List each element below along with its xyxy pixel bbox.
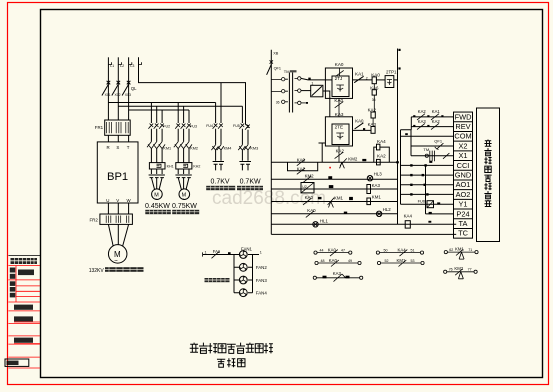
svg-text:V: V [116,198,119,203]
motor M2 0.45KW [152,189,163,200]
fuse FU5 [239,124,249,130]
svg-text:36: 36 [276,101,280,105]
GND row [401,174,454,176]
svg-text:47: 47 [341,248,345,252]
annotation [237,186,263,190]
node 0 stub [301,102,306,104]
svg-text:L3: L3 [130,64,134,68]
coil KA4 [377,144,380,150]
contactor KM2 [174,142,192,149]
KA0 contact between groups [335,98,344,116]
svg-text:KA3: KA3 [418,119,427,124]
svg-text:0.75KW: 0.75KW [172,203,197,210]
svg-text:KA4: KA4 [377,139,386,144]
svg-text:KA1: KA1 [355,72,364,77]
annotation [145,210,171,214]
rail row R5 [271,213,397,215]
coil KA4b [405,221,410,228]
title line 1 [190,343,199,353]
X1 row [411,155,454,157]
svg-text:132KV: 132KV [89,268,105,274]
svg-text:77: 77 [468,268,472,272]
label 132KW chinese [105,267,144,272]
bottom return wire [271,233,456,235]
svg-text:P24: P24 [456,209,469,218]
svg-text:0.7KV: 0.7KV [211,178,230,185]
REV row [411,126,453,128]
svg-text:1: 1 [260,251,262,255]
fan bus left [233,255,235,293]
svg-text:KA1: KA1 [432,109,441,114]
rail row R1 [271,161,397,163]
reactor FR1 [105,120,131,135]
cell texts [10,268,34,343]
fan FAN1 [239,251,247,259]
unit U2 [301,183,314,193]
svg-text:KM1: KM1 [397,258,406,263]
coil KA3 [371,127,375,134]
coil KA2 [371,112,375,118]
wire L1 [107,57,109,120]
svg-text:KM2: KM2 [454,266,463,271]
contact KA3 changeover [313,276,316,279]
svg-text:KA0: KA0 [371,73,380,78]
KA0 contact [335,68,343,77]
contact KM1 actuator [328,198,335,208]
svg-text:KM3: KM3 [250,147,258,151]
svg-text:76: 76 [449,268,453,272]
wires FR2 to motor M1 [108,224,128,246]
svg-text:KH1: KH1 [167,165,174,169]
contact KM2 76-77 thermal [444,270,447,273]
svg-text:Y1: Y1 [458,200,467,209]
inverter terminal box [477,108,500,242]
rail row R4 [271,201,397,203]
cable marks [175,175,191,178]
svg-text:COM: COM [454,132,471,141]
svg-text:TM: TM [423,147,429,152]
svg-text:R: R [107,145,110,150]
svg-text:KM1: KM1 [163,147,171,151]
svg-text:FAN4: FAN4 [256,291,268,296]
breaker QF1 [267,65,272,75]
annotation [172,210,199,214]
wire L3 [128,57,130,120]
svg-text:TA: TA [459,219,468,228]
svg-text:0.7KW: 0.7KW [240,178,261,185]
svg-text:BP1: BP1 [107,171,128,183]
svg-text:HL2: HL2 [383,207,392,212]
svg-text:1: 1 [311,82,313,86]
breaker QL pole 1 [102,81,110,96]
TM primary taps [271,80,281,92]
coil KM1 [367,198,371,205]
timer 2TJ [332,76,349,97]
svg-text:36: 36 [372,98,376,102]
wire group2 to rail R1 [319,143,326,162]
vertical chinese label [484,140,491,147]
svg-text:2TE: 2TE [335,125,343,130]
svg-text:FU3: FU3 [190,124,197,128]
svg-text:KA0: KA0 [305,195,314,200]
svg-text:AO2: AO2 [456,190,471,199]
contact KM2 with actuator [340,158,347,168]
svg-text:2TJ: 2TJ [335,76,343,81]
svg-text:L2: L2 [120,64,124,68]
svg-text:KM4: KM4 [224,147,232,151]
lamp HL3 [367,176,372,181]
thermal box FR4 [176,163,192,169]
breaker QL pole 2 [112,81,120,96]
artifact dot [329,167,331,169]
svg-text:71: 71 [468,248,472,252]
svg-text:KM1: KM1 [372,194,382,199]
coil KA0 [372,77,376,84]
branch 3 drops [216,83,221,123]
bus phase C [129,109,189,111]
svg-text:2TP1: 2TP1 [386,70,397,75]
Y1 row with FU6 [401,203,454,205]
fuse FU4 [213,124,223,129]
svg-text:KA4: KA4 [404,214,413,219]
svg-text:HL3: HL3 [374,172,383,177]
svg-text:~: ~ [114,259,118,265]
svg-text:KA0: KA0 [307,208,316,213]
TM secondary taps [298,77,301,80]
svg-text:L1: L1 [110,64,114,68]
terminal hook N [139,62,142,64]
svg-text:KA0: KA0 [328,248,337,253]
coil KA2b [377,159,381,165]
bus phase B [118,105,242,107]
contact KM1 row2 [377,261,380,264]
svg-text:XB: XB [273,52,279,56]
svg-text:KA0: KA0 [334,98,343,103]
rail row R6 [271,223,456,225]
CCI row [401,164,454,166]
svg-text:S: S [116,145,119,150]
contact KA0 out of 2TE [353,123,372,131]
svg-text:KH2: KH2 [193,165,200,169]
X2 row [411,145,454,147]
svg-text:FU6: FU6 [418,199,426,204]
svg-text:CCI: CCI [457,161,470,170]
inverter BP1 [97,142,138,203]
feed verticals [401,117,412,204]
svg-text:KA3: KA3 [372,183,381,188]
svg-text:X01: X01 [105,93,111,97]
svg-text:44: 44 [320,248,324,252]
svg-text:KM2: KM2 [348,157,358,162]
fan FAN3 [239,276,247,284]
svg-text:FR2: FR2 [90,217,99,222]
contact KA4 50-51 [376,251,379,254]
fan bus right [252,255,254,293]
svg-text:X1: X1 [458,151,467,160]
parallel loop KA0/KA2 [288,162,318,170]
svg-text:48: 48 [321,259,325,263]
svg-text:T: T [127,145,130,150]
fan annotation [205,278,230,282]
wire FU1 to 2TE [323,91,330,117]
svg-text:1: 1 [205,250,207,254]
svg-text:FAN2: FAN2 [256,265,268,270]
timer 2TP1 [385,76,394,88]
AO1 row [401,184,454,186]
svg-text:AO1: AO1 [456,180,471,189]
fuse FU1 [301,90,311,92]
timer group 2TE frame [325,117,352,146]
fan FAN2 [239,263,247,271]
coil KA3b [367,185,371,194]
svg-text:X03: X03 [125,93,131,97]
wire L2 [117,57,119,120]
svg-text:KA0: KA0 [329,258,338,263]
timer 2TE [332,124,349,145]
contact KM1 62-71 thermal [444,251,447,254]
svg-text:TM: TM [284,69,290,74]
lamp HL2 [376,211,381,216]
svg-text:FAN1: FAN1 [241,246,253,251]
svg-text:GND: GND [455,171,471,180]
svg-text:51: 51 [411,248,415,252]
strip grid lines [8,266,40,368]
svg-text:2: 2 [366,76,368,80]
AO2 row [401,193,454,195]
date box [5,359,29,366]
svg-text:KA2: KA2 [418,109,427,114]
svg-text:FU4: FU4 [206,124,213,128]
branch 4 drops [242,106,248,128]
terminal label column [454,112,473,238]
contactor KM3 [238,145,251,150]
svg-text:52: 52 [385,259,389,263]
rail row R2 [271,178,397,180]
fan feed wire [203,254,234,256]
svg-text:KA3: KA3 [335,112,344,117]
wires [151,129,162,142]
cable marks [149,175,165,178]
svg-text:0.45KW: 0.45KW [145,203,170,210]
contactor KM4 [211,145,223,150]
svg-text:KM1: KM1 [455,246,464,251]
svg-text:FU5: FU5 [233,124,240,128]
svg-text:REV: REV [455,122,470,131]
svg-text:62: 62 [449,248,453,252]
node 1 wire [301,78,325,80]
svg-text:FWD: FWD [455,112,472,121]
strip divider [15,266,17,302]
svg-text:KA4: KA4 [398,248,407,253]
bus phase A [108,102,215,104]
svg-text:W: W [127,198,132,203]
breaker QL pole 3 [122,81,130,96]
contact KA2 below 2TE [335,146,344,162]
svg-text:KM2: KM2 [190,147,198,151]
branch 2 drops [178,103,189,124]
contactor KM1 [147,142,165,149]
contact KA1 [353,76,373,82]
through wire [325,79,332,81]
svg-text:KA3: KA3 [333,271,342,276]
wires FR1 to BP1 [108,135,128,142]
lamp HL1 [313,222,318,227]
contact KA0 row2 [315,261,318,264]
svg-text:50: 50 [384,248,388,252]
thermal FR2 [100,214,132,224]
fan rungs [234,255,253,293]
timer group 2TJ frame [325,68,352,98]
svg-text:U2: U2 [302,185,307,189]
svg-text:KA2: KA2 [336,148,345,153]
annotation [206,186,235,190]
left control rail [270,50,272,235]
fuse FU2 [148,124,164,129]
P24 feed [426,165,454,214]
svg-text:FU2: FU2 [163,124,170,128]
COM row [401,135,454,137]
terminal hook L3 [129,62,132,64]
svg-text:X02: X02 [115,93,121,97]
svg-text:KA2: KA2 [377,153,386,158]
wire to 2TP1 [376,79,385,81]
title line 2 [217,359,225,367]
contact KA0 44-47 [314,251,317,254]
svg-text:QL: QL [131,86,137,91]
wires BP1 to FR2 [108,203,128,214]
rail row R3 [271,188,397,190]
svg-text:KA0: KA0 [355,119,364,124]
heater terminals [213,162,224,171]
KA4 KA2 branch frame [374,147,390,162]
motor M3 0.75KW [179,189,190,200]
motor M1 132KW [108,245,127,264]
svg-text:FAN3: FAN3 [256,278,268,283]
strip top line [8,254,40,256]
svg-text:KA3: KA3 [368,122,377,127]
svg-text:KA2: KA2 [432,119,441,124]
coil column KA6 [373,84,375,90]
terminal hook L2 [118,62,121,64]
svg-text:KM1: KM1 [334,195,344,200]
branch 1 drops [151,103,162,124]
svg-text:KA6: KA6 [370,85,379,90]
svg-text:U: U [106,198,109,203]
header text [11,258,38,264]
svg-text:HL1: HL1 [320,218,329,223]
thermal box FR3 [149,163,165,169]
svg-text:TC: TC [458,229,469,238]
svg-text:KA0: KA0 [335,62,344,67]
svg-text:FR1: FR1 [95,125,104,130]
transformer TM core [289,73,292,113]
svg-text:X2: X2 [458,141,467,150]
svg-text:KA2: KA2 [368,108,377,113]
wire N [139,57,246,124]
fuse FU3 [175,124,191,129]
right control rail [397,49,399,225]
svg-text:QF1: QF1 [274,66,281,70]
fan FAN4 [239,289,247,297]
svg-text:53: 53 [411,259,415,263]
FWD row [411,116,453,118]
terminal hook L1 [108,62,111,64]
heater terminals [239,162,251,171]
svg-text:QF1: QF1 [434,138,443,143]
svg-text:49: 49 [348,259,352,263]
